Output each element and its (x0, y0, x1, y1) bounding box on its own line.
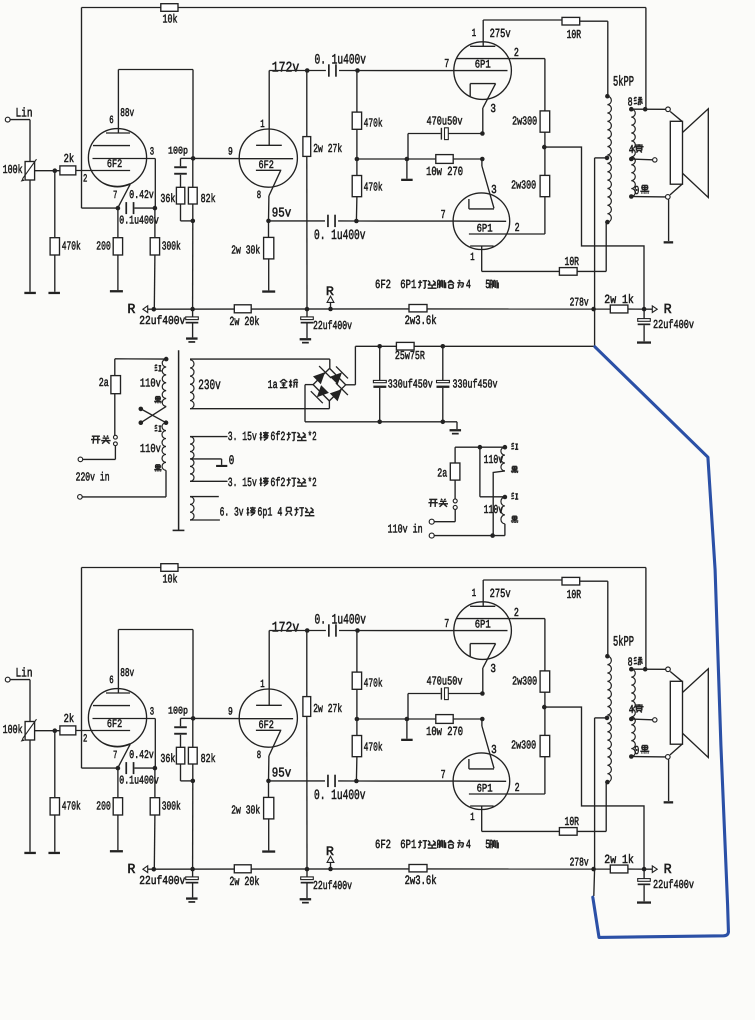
svg-text:2w3.6k: 2w3.6k (405, 313, 437, 328)
transformer T1 5kPP primary (607, 96, 611, 222)
wire: cap to 470k node (339, 70, 454, 72)
svg-text:0.42v: 0.42v (129, 188, 154, 202)
junction (480, 717, 485, 722)
svg-text:300k: 300k (162, 800, 181, 814)
potentiometer VR-100k (25, 722, 34, 741)
wire: cap to lower 6P1 grid (338, 220, 356, 222)
svg-text:7: 7 (113, 190, 117, 202)
input terminal Lin (5, 677, 10, 682)
wire: feedback left drop to cathode (81, 568, 83, 769)
svg-text:4: 4 (466, 278, 471, 292)
svg-text:110v: 110v (140, 377, 161, 391)
svg-text:6P1: 6P1 (477, 224, 493, 236)
ground (22uf no.2) (300, 338, 312, 340)
svg-text:470k: 470k (62, 800, 81, 814)
svg-text:7: 7 (441, 208, 446, 222)
wire: ground drop (406, 159, 408, 179)
resistor R-300k (150, 238, 159, 255)
svg-text:3: 3 (150, 706, 154, 718)
svg-text:3: 3 (491, 743, 497, 757)
svg-text:3: 3 (490, 662, 496, 676)
ground (22uf no.3) (637, 901, 651, 903)
wire: 470k to ground (54, 255, 56, 292)
resistor R-2w1k (610, 305, 628, 313)
svg-text:100p: 100p (168, 146, 188, 158)
svg-text:9: 9 (228, 706, 233, 718)
resistor R-2w1k (610, 865, 628, 873)
capacitor C-0.1u400v (coupling bottom) (327, 215, 329, 227)
wire: 200R to ground (117, 255, 119, 290)
wire: 0 tap (631, 196, 665, 198)
wire: V3 screen pin2 to 2w300 (512, 618, 545, 620)
svg-text:7: 7 (444, 617, 449, 631)
svg-text:0: 0 (634, 184, 639, 198)
svg-text:2w 27k: 2w 27k (313, 142, 342, 156)
resistor R-2w27k (303, 697, 311, 717)
wire: to V2 grid pin 9 (193, 157, 239, 159)
capacitor C-100p (174, 166, 187, 168)
junction (153, 766, 158, 771)
wire: centre tap to B+ riser (595, 157, 607, 159)
wire: input to volume pot (10, 679, 30, 681)
transformer T2 core (178, 350, 180, 530)
svg-text:2w300: 2w300 (511, 738, 536, 752)
wire: feedback top rail (82, 567, 161, 569)
label 红 (155, 365, 156, 367)
resistor R-2k (grid stopper) (60, 726, 76, 735)
wire: screen node to R net (544, 707, 644, 869)
resistor R-25w75R (396, 342, 414, 350)
resistor R-2w20k (234, 865, 251, 873)
junction (27k top) (305, 628, 310, 633)
ground (470k) (48, 292, 60, 294)
svg-text:5kPP: 5kPP (613, 634, 634, 650)
wire: 470k to 95v wire (355, 757, 358, 781)
svg-text:2w 1k: 2w 1k (604, 853, 634, 867)
svg-text:2w300: 2w300 (512, 115, 537, 129)
junction (8-ohm FB tap) (643, 667, 648, 672)
resistor R-2w27k riser (306, 71, 308, 137)
junction (R net) (642, 867, 647, 872)
wire: V4 plate to 10R (481, 806, 483, 831)
svg-text:10w 270: 10w 270 (426, 725, 463, 739)
wire: switch to 220v terminal (114, 446, 116, 460)
resistor R-2w27k (303, 137, 311, 157)
wire: feedback top rail (82, 7, 161, 9)
junction (cathode pin7) (116, 766, 121, 771)
label 红 (512, 493, 513, 495)
wire: feedback right drop to 8-ohm tap (645, 568, 647, 670)
wire: cap to 300k node (135, 207, 156, 209)
fuse F2 2a (454, 447, 456, 499)
svg-text:10k: 10k (163, 12, 178, 26)
junction (FB network node) (191, 156, 196, 161)
wire: 230v top lead to bridge (190, 358, 330, 360)
wire: bottom lead (434, 535, 505, 537)
svg-text:2w3.6k: 2w3.6k (405, 873, 437, 888)
wire: bridge plus to B+ (346, 384, 356, 386)
svg-text:36k: 36k (160, 752, 175, 766)
speaker LS (670, 681, 682, 744)
wire: 3.15v centre tap 0 (190, 458, 222, 460)
wire: 27k to R rail (306, 156, 308, 309)
ground (PSU) (450, 429, 462, 431)
junction (R net) (642, 307, 647, 312)
svg-text:95v: 95v (272, 206, 292, 221)
svg-text:10R: 10R (567, 588, 582, 602)
wire: FB network to R rail (192, 221, 194, 309)
ground (200R) (110, 290, 123, 292)
svg-text:6F2: 6F2 (259, 160, 274, 172)
svg-text:6p1 4: 6p1 4 (257, 505, 282, 519)
capacitor C-0.1u400v (coupling top) (328, 624, 330, 636)
resistor R-2w27k riser (306, 631, 308, 697)
junction (22uf no.1) (190, 867, 195, 872)
svg-text:5kPP: 5kPP (613, 74, 634, 90)
resistor R-300k (150, 798, 159, 815)
svg-text:278v: 278v (570, 856, 589, 870)
svg-text:0. 1u400v: 0. 1u400v (314, 788, 366, 804)
wire: 10R to OPT primary bottom (577, 830, 606, 832)
wire: negative rail (305, 421, 457, 423)
wire: 470k to ground (54, 815, 56, 852)
junction (354, 219, 359, 224)
label 黑 (512, 515, 516, 517)
wire: 4-ohm tap (631, 158, 652, 161)
svg-text:3: 3 (491, 183, 497, 197)
svg-text:22uf400v: 22uf400v (313, 319, 352, 333)
wire: lower winding return (504, 524, 506, 536)
ground (22uf no.2) (300, 898, 312, 900)
svg-text:1: 1 (470, 252, 475, 264)
transformer T1 secondary (631, 669, 635, 756)
capacitor C-22uf400v no.3 (643, 869, 645, 879)
svg-text:2w 20k: 2w 20k (229, 315, 259, 329)
svg-text:200: 200 (96, 800, 111, 814)
speaker LS (670, 121, 682, 184)
wire: 0 tap (631, 756, 665, 758)
terminal 8-ohm (666, 667, 671, 672)
svg-text:2a: 2a (99, 376, 109, 390)
wire: 10w270 to cathode node (453, 158, 482, 160)
junction (278v B+) (591, 307, 596, 312)
svg-text:0.1u400v: 0.1u400v (119, 214, 159, 228)
junction (470k top) (355, 68, 360, 73)
wire: 10R to OPT primary top (580, 20, 608, 22)
resistor R-10w270 (common cathode) (436, 155, 453, 164)
junction (27k top) (305, 68, 310, 73)
capacitor C-0.1u400v (coupling bottom) (327, 775, 329, 787)
svg-text:172v: 172v (272, 61, 300, 77)
junction (354, 779, 359, 784)
svg-text:300k: 300k (162, 240, 181, 254)
junction (FB network node) (191, 716, 196, 721)
wire: 2w300 to screen node (544, 692, 546, 707)
ground (cathode bias) (401, 739, 413, 741)
capacitor C-0.1u400v (cathode) (125, 762, 127, 774)
svg-text:1: 1 (470, 812, 475, 824)
svg-text:7: 7 (441, 768, 446, 782)
junction (screen node) (542, 145, 547, 150)
svg-text:470k: 470k (364, 740, 383, 754)
svg-text:2: 2 (515, 781, 520, 795)
svg-text:22uf400v: 22uf400v (653, 878, 694, 892)
capacitor C-22uf400v no.1 (192, 869, 194, 877)
wire: FB network to R rail (192, 781, 194, 869)
wire: 2k to 6F2 grid pin 2 (76, 170, 130, 172)
ground (pot) (24, 852, 35, 854)
wire: 172v rail (269, 630, 326, 632)
resistor R-82k (188, 747, 197, 764)
tube V3 6P1 upper (454, 602, 512, 660)
resistor R-2w300 lower (540, 175, 550, 196)
wire: V4 screen to 2w300 (513, 793, 545, 795)
wire: 4-ohm tap (631, 718, 652, 721)
svg-text:100k: 100k (3, 163, 23, 177)
wire: top lead (455, 446, 505, 448)
svg-text:0.1u400v: 0.1u400v (119, 774, 159, 788)
phase swap crossover (139, 407, 144, 412)
svg-text:7: 7 (113, 750, 117, 762)
wire: to 300k (154, 208, 156, 238)
wire: switch to terminal (454, 509, 456, 521)
resistor R-10k (feedback) (161, 4, 178, 12)
svg-text:9: 9 (228, 146, 233, 158)
svg-text:3. 15v: 3. 15v (228, 430, 257, 444)
junction (153, 206, 158, 211)
svg-text:2w 30k: 2w 30k (231, 803, 260, 817)
svg-text:100p: 100p (168, 706, 188, 718)
ground (22uf no.1) (186, 897, 198, 899)
fuse F1 2a (114, 359, 116, 435)
wire: between 470k pair (356, 689, 358, 735)
svg-text:0. 1u400v: 0. 1u400v (314, 228, 366, 244)
transformer T1 secondary (631, 109, 635, 196)
ground (pot) (24, 292, 35, 294)
junction (191, 779, 196, 784)
svg-text:6: 6 (109, 675, 113, 687)
capacitor C-470u50v (441, 128, 442, 140)
svg-text:2w 30k: 2w 30k (231, 243, 260, 257)
wire: 2w300 to screen node (544, 147, 546, 175)
svg-text:100k: 100k (3, 723, 23, 737)
resistor R-470k (grid leak) (50, 798, 59, 815)
svg-text:*2: *2 (308, 476, 317, 490)
resistor R-10R lower (559, 828, 577, 836)
svg-text:6. 3v: 6. 3v (220, 505, 244, 519)
wire: speaker return to ground (668, 199, 670, 241)
wire: upper winding return (493, 471, 505, 536)
svg-text:0. 1u400v: 0. 1u400v (315, 613, 367, 629)
wire: winding to 220v terminal (165, 470, 167, 497)
label 黑 (156, 396, 160, 398)
svg-text:470k: 470k (62, 240, 81, 254)
label 黑 (156, 464, 160, 466)
wire: input to volume pot (10, 119, 30, 121)
net arrow R (right) (652, 866, 657, 873)
input terminal Lin (5, 117, 10, 122)
wire: 8-ohm tap to speaker (631, 108, 665, 110)
tube V4 6P1 lower (453, 753, 510, 810)
wire: 95v cathode rail (269, 780, 326, 782)
transformer T2 primary winding 110v upper (164, 357, 169, 362)
junction (cathode node) (480, 131, 485, 136)
resistor R-2w3.6k (409, 865, 427, 872)
svg-text:36k: 36k (160, 192, 175, 206)
ground (22uf no.1) (186, 337, 198, 339)
resistor R-82k (188, 187, 197, 204)
svg-text:10k: 10k (163, 572, 178, 586)
svg-text:110v in: 110v in (388, 522, 423, 536)
wire: 2w300 to screen node (544, 132, 546, 147)
wire: pot wiper to 2k (35, 170, 60, 172)
svg-text:1: 1 (472, 28, 477, 40)
svg-text:95v: 95v (272, 766, 292, 781)
wire: 36k bottom (180, 204, 182, 221)
wire: 27k to R rail (306, 716, 308, 869)
wire: V3 plate to 10R (482, 20, 484, 46)
resistor R-470k lower (352, 736, 361, 757)
svg-text:6P1: 6P1 (477, 784, 493, 796)
svg-text:10R: 10R (567, 28, 582, 42)
wire: cap right lead (448, 133, 482, 135)
junction (300k) (152, 307, 157, 312)
wire: parallel link (479, 447, 481, 497)
wire: V3 cathode drop (482, 668, 484, 694)
svg-text:470k: 470k (364, 180, 383, 194)
svg-text:4: 4 (466, 838, 471, 852)
terminal 8-ohm (666, 107, 671, 112)
svg-text:172v: 172v (272, 621, 300, 637)
resistor R-10R lower (559, 268, 577, 276)
wire: cathode to 200R (117, 208, 119, 238)
wire: to 300k (154, 768, 156, 798)
ground (470k) (48, 852, 60, 854)
svg-text:10R: 10R (565, 815, 580, 829)
wire: 82k riser (192, 158, 194, 187)
wire: to 470k grid leak (54, 731, 56, 798)
svg-text:Lin: Lin (16, 666, 33, 681)
capacitor C-22uf400v no.2 (306, 869, 308, 877)
terminal 220v upper (78, 457, 83, 462)
wire: B+ riser from OPT centre tap (594, 158, 596, 346)
junction (ground node) (405, 717, 410, 722)
wire: 95v cathode rail (269, 220, 326, 222)
svg-text:0: 0 (229, 453, 235, 468)
capacitor C-0.1u400v (coupling top) (328, 64, 330, 76)
resistor R-2w20k (234, 305, 251, 313)
wire: 36k bottom (180, 764, 182, 781)
wire: 82k bottom (192, 764, 194, 781)
svg-text:6P1: 6P1 (475, 60, 491, 72)
svg-text:2w300: 2w300 (511, 178, 536, 192)
hand-drawn blue wire: B+ to lower channel (593, 347, 729, 938)
svg-text:2w 20k: 2w 20k (229, 875, 259, 889)
junction (377, 344, 382, 349)
wire: 30k to ground (268, 259, 270, 291)
svg-text:6F2: 6F2 (375, 838, 391, 852)
transformer T2 secondary 230v (190, 360, 194, 409)
svg-text:22uf400v: 22uf400v (653, 318, 694, 332)
junction (441, 344, 446, 349)
wire: R rail (148, 868, 235, 870)
svg-text:470k: 470k (364, 677, 383, 691)
svg-text:6P1: 6P1 (400, 838, 416, 852)
wire: plate pin6 riser (117, 70, 119, 134)
resistor R-2w30k (264, 797, 274, 819)
svg-text:3. 15v: 3. 15v (228, 476, 257, 490)
svg-text:470k: 470k (364, 117, 383, 131)
transformer T3 winding 110v upper (501, 447, 505, 471)
wire: 10w270 to cathode node (453, 718, 482, 720)
svg-text:110v: 110v (484, 453, 504, 467)
wire: cap to 470k node (339, 630, 454, 632)
svg-text:10w 270: 10w 270 (426, 165, 463, 179)
svg-text:470u50v: 470u50v (427, 115, 463, 129)
terminal 110v upper (429, 519, 434, 524)
wire: 82k riser (192, 718, 194, 747)
resistor R-10w270 (common cathode) (436, 715, 453, 724)
capacitor C-22uf400v no.1 (192, 309, 194, 317)
resistor R-10R upper (562, 577, 580, 585)
resistor R-470k upper (356, 631, 358, 673)
svg-text:330uf450v: 330uf450v (453, 378, 498, 392)
wire: cathode to 200R (117, 768, 119, 798)
capacitor C-22uf400v no.3 (643, 309, 645, 319)
wire: 10R to OPT primary top (580, 580, 608, 582)
svg-text:110v: 110v (484, 503, 504, 517)
svg-text:220v in: 220v in (76, 470, 110, 484)
wire: V4 screen to 2w300 (513, 233, 545, 235)
tube V3 6P1 upper (454, 42, 512, 100)
wire: 3.15v bottom lead (190, 480, 228, 482)
resistor R-200 (cathode) (113, 238, 122, 255)
wire: feedback right drop to 8-ohm tap (645, 8, 647, 110)
resistor R-2k (grid stopper) (60, 166, 76, 175)
wire: 470k to 95v wire (355, 197, 358, 221)
wire: speaker return to ground (668, 759, 670, 801)
terminal 0 (666, 755, 671, 760)
svg-text:4: 4 (629, 703, 634, 717)
terminal 4-ohm (653, 158, 657, 162)
capacitor C-100p (174, 726, 187, 728)
wire: V4 plate to 10R (481, 246, 483, 271)
svg-text:8: 8 (257, 750, 261, 762)
wire: 300k to R rail (153, 255, 156, 309)
resistor R-36k (176, 747, 184, 764)
wire: 172v rail (269, 70, 326, 72)
resistor R-10k (feedback) (161, 564, 178, 572)
potentiometer VR-100k (25, 162, 34, 181)
wire: cap right lead (448, 693, 482, 695)
svg-text:R: R (664, 862, 672, 878)
svg-text:8: 8 (257, 190, 261, 202)
label 红 (155, 425, 156, 427)
resistor R-200 (cathode) (113, 798, 122, 815)
svg-text:*2: *2 (308, 430, 317, 444)
wire: centre tap to B+ riser (595, 717, 607, 719)
junction (screen node) (542, 705, 547, 710)
ground (200R) (110, 850, 123, 852)
label 红 (512, 443, 513, 445)
terminal 0 (666, 195, 671, 200)
wire: V3 plate to 10R (482, 580, 484, 606)
wire: 3.15v top lead (190, 436, 228, 438)
svg-text:275v: 275v (490, 27, 511, 41)
svg-text:R: R (127, 862, 135, 878)
svg-text:88v: 88v (120, 106, 134, 120)
svg-text:6F2: 6F2 (259, 720, 274, 732)
